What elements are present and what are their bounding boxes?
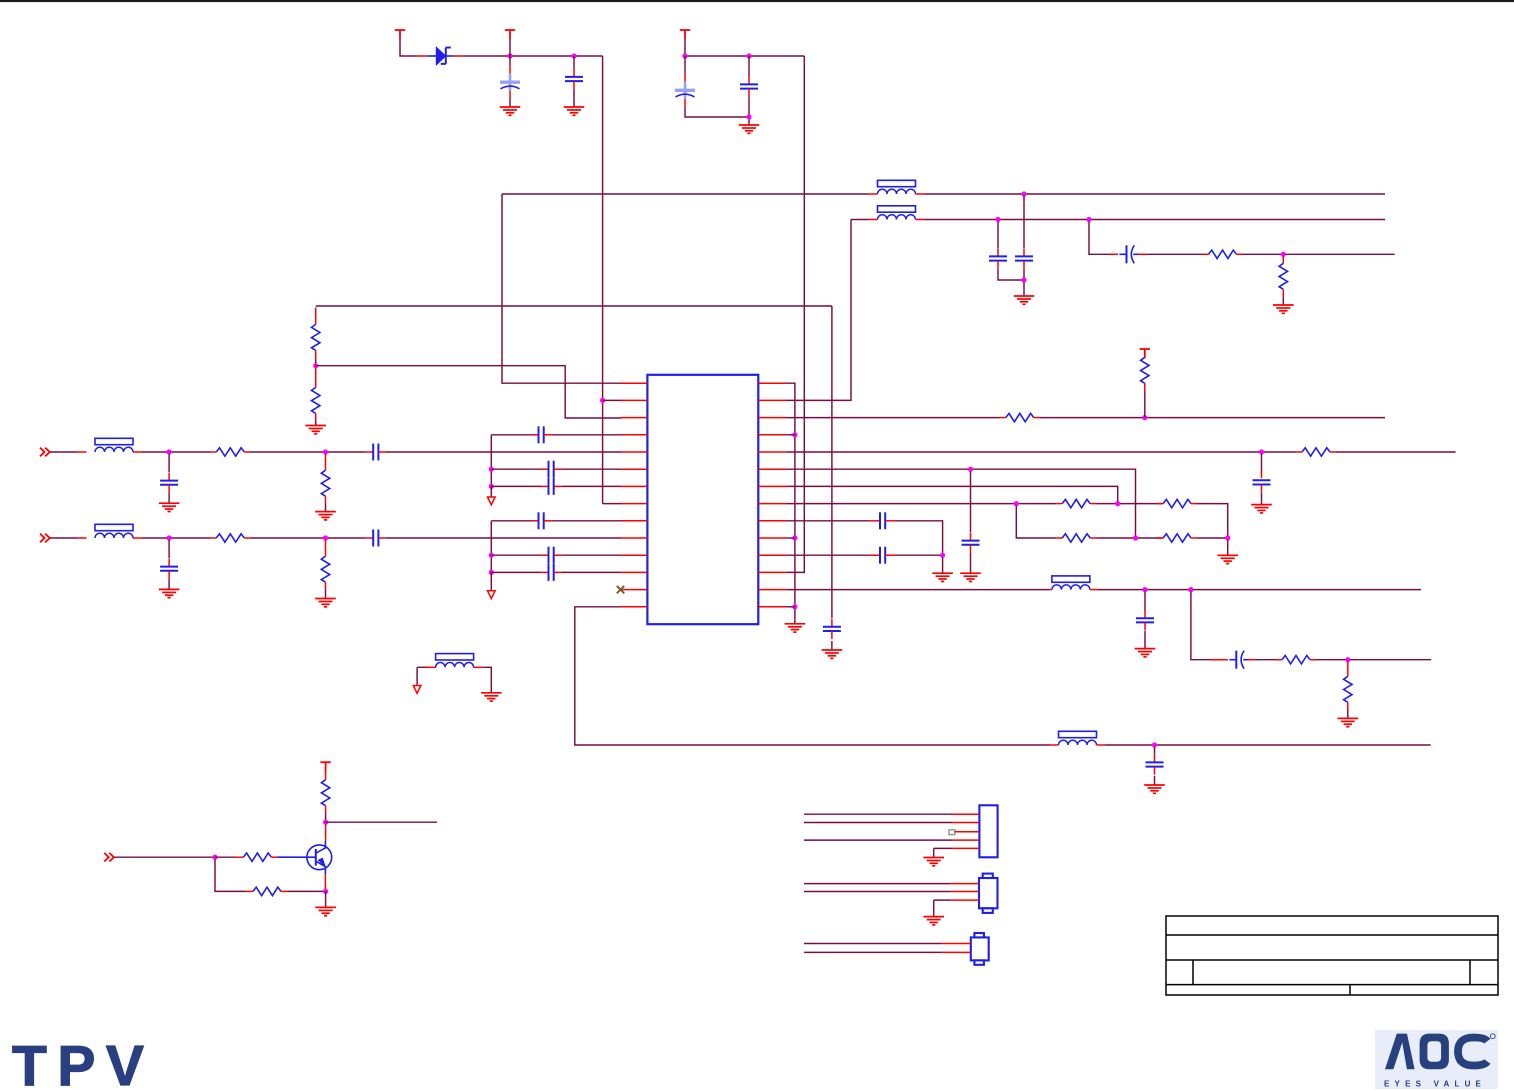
wire Ca3 to pin [561, 485, 621, 487]
resistor R6 bottom stub [1144, 383, 1146, 391]
capacitor C5 [989, 256, 1007, 260]
ground for C5 C6 [1014, 296, 1035, 304]
wire rail to pin L8 [603, 503, 621, 505]
junction resnet C [1133, 535, 1138, 540]
junction FB1 cap tap [1142, 587, 1147, 592]
wire W1 tap down [1023, 196, 1025, 248]
resistor R5a [216, 448, 244, 456]
wire rail b to cap2 [491, 554, 541, 556]
pin 24 stub (right) [758, 451, 786, 453]
wire R3 to node [315, 360, 317, 366]
pin 19 stub (right) [758, 537, 786, 539]
capacitor C5 top stub [997, 248, 999, 256]
wire port 6 to bead [50, 537, 77, 539]
pin 7 stub (left) [621, 485, 647, 487]
pin 16 stub (right) [758, 589, 786, 591]
capacitor C13 bottom stub [1154, 767, 1156, 775]
resistor R16 right stub [281, 890, 288, 892]
wire J1 pin at 822.5 [804, 822, 952, 824]
resistor R15 left stub [236, 856, 243, 858]
capacitor C6g top stub [168, 559, 170, 567]
junction rail pin 25 [792, 432, 797, 437]
junction R13 tap [1345, 657, 1350, 662]
resistor R8 right stub [1090, 503, 1096, 505]
capacitor Cb3 [549, 564, 554, 581]
ground for pins 20/18 [932, 573, 953, 581]
junction row 5 res tap [323, 449, 328, 454]
wire resnet A down [1016, 506, 1056, 538]
wire J3 pin at 943.5 [804, 943, 942, 945]
resistor R6b [321, 556, 329, 582]
J1 pin stub at 814.2 [952, 813, 979, 815]
capacitor C4 bottom stub [748, 89, 750, 97]
capacitor Ca1 right stub [544, 434, 551, 436]
junction emitter node [323, 889, 328, 894]
connector J2 body [979, 874, 998, 913]
resistor R4 [312, 387, 320, 413]
wire C6g to ground [168, 579, 170, 589]
wire J1 pin at 814.2 [804, 813, 952, 815]
wire rail b top to cap [491, 520, 531, 522]
wire J2 pin at 891.5 [804, 891, 951, 893]
wire pin23 tap down [970, 471, 972, 532]
ferrite bead FB3 [878, 180, 916, 194]
wire Ca2 to pin [561, 468, 621, 470]
resistor R15 right stub [271, 856, 277, 858]
resistor R5 left stub [1000, 417, 1006, 419]
junction node A1 [507, 53, 512, 58]
wire R13 to ground [1347, 710, 1349, 718]
wire pin 20 net right [895, 521, 942, 555]
wire resistor 6 to cap [251, 537, 366, 539]
bead FB5 right stub [133, 451, 142, 453]
wire pin 25 to rail [787, 434, 795, 436]
capacitor C5g bottom stub [168, 485, 170, 493]
capacitor Cb2 right stub [554, 554, 561, 556]
wire D1 to corner node A [463, 55, 603, 57]
connector J1 body [979, 805, 997, 857]
wire C10 to ground [970, 553, 972, 573]
pin 9 stub (left) [621, 520, 647, 522]
wire node A1 to C1 [509, 56, 511, 66]
pin 26 stub (right) [758, 417, 786, 419]
resistor R8 [1062, 499, 1090, 507]
capacitor C6 [1015, 256, 1033, 260]
junction resnet A [1014, 501, 1019, 506]
capacitor C13 [1146, 762, 1164, 766]
resistor R5 [1006, 413, 1034, 421]
power pin VCC4 [1140, 349, 1150, 358]
wire VCC3 stem [684, 39, 686, 56]
wire R12 net right [1316, 659, 1431, 661]
pin 6 stub (left) [621, 468, 647, 470]
junction collector node [323, 820, 328, 825]
resistor R5a left stub [210, 451, 216, 453]
wire C1 to ground [509, 99, 511, 107]
resistor R1 [1209, 250, 1237, 258]
resistor R1 left stub [1203, 253, 1209, 255]
wire C7 to R1 [1147, 253, 1203, 255]
power pin VCC5 [320, 762, 330, 771]
wire rail b to cap3 [491, 571, 541, 573]
resistor R6a left stub [210, 537, 216, 539]
capacitor Cb2 [549, 547, 554, 564]
resistor R5b bottom stub [325, 496, 327, 504]
wire to arrow a [490, 486, 492, 497]
J2 pin stub at 883.6 [951, 883, 979, 885]
ground for C8 [822, 650, 843, 658]
pin 22 stub (right) [758, 485, 786, 487]
capacitor C2 [565, 77, 583, 81]
wire collector output [326, 821, 437, 823]
resistor R2 bottom stub [1282, 289, 1284, 297]
ground for R6b [315, 599, 336, 607]
capacitor C6g bottom stub [168, 571, 170, 579]
ground for J2 [923, 917, 944, 925]
J1 pin 5 stub [952, 847, 979, 849]
resistor R15 [243, 853, 271, 861]
ferrite bead FB5 [95, 438, 133, 452]
pin 10 stub (left) [621, 537, 647, 539]
resistor R14 bottom stub [325, 806, 327, 813]
capacitor C15 right stub [885, 554, 895, 556]
wire Cb3 to pin [561, 571, 621, 573]
capacitor C6 top stub [1023, 248, 1025, 256]
resistor R13 bottom stub [1347, 702, 1349, 710]
junction pullup node [1142, 415, 1147, 420]
wire C3 bottom to node B3 [685, 107, 749, 117]
wire C6 to ground [1023, 269, 1025, 296]
J1 pin 3 stub [955, 831, 980, 833]
resistor R7 right stub [1330, 451, 1336, 453]
ground for Q1 [315, 907, 336, 915]
wire emitter to ground [325, 891, 327, 907]
wire R6 to junction [1144, 391, 1146, 418]
junction node B1 [682, 53, 687, 58]
resistor R12 [1282, 656, 1310, 664]
bead FB2 right stub [1097, 744, 1106, 746]
wire pin 20 net left [787, 520, 870, 522]
wire R1 to right edge [1243, 253, 1395, 255]
resistor R7 left stub [1296, 451, 1302, 453]
resistor R14 [321, 780, 329, 806]
wire R6b to ground [325, 590, 327, 599]
wire FB5 to ground [483, 667, 492, 693]
capacitor Cb1 left stub [531, 520, 538, 522]
ferrite bead FB1 [1052, 576, 1090, 590]
wire W3 drop to capacitor [831, 306, 833, 618]
capacitor C3 bottom stub [684, 99, 686, 107]
capacitor C9 [1253, 480, 1271, 484]
junction FB1 branch [1188, 587, 1193, 592]
junction W2 cap tap [995, 217, 1000, 222]
op-amp U1 (main IC body) [647, 375, 758, 624]
junction row 5 cap tap [167, 449, 172, 454]
capacitor C1 (electrolytic) [500, 74, 520, 91]
capacitor C6s (series) [373, 530, 378, 547]
capacitor C4 top stub [748, 76, 750, 84]
wire C13 to ground [1154, 776, 1156, 785]
capacitor Cb2 left stub [541, 554, 548, 556]
wire C5g to ground [168, 493, 170, 503]
capacitor Ca1 left stub [531, 434, 538, 436]
capacitor Cb1 [539, 512, 544, 529]
junction row 6 cap tap [167, 535, 172, 540]
capacitor Ca3 right stub [554, 485, 561, 487]
power down-arrow a [488, 497, 496, 505]
ground for resnet [1217, 555, 1238, 563]
capacitor Ca2 right stub [554, 468, 561, 470]
power pin VCC1 [395, 30, 405, 39]
wire W2 tap down [997, 222, 999, 249]
bead FB5 right stub [473, 666, 482, 668]
ground for C1 [500, 107, 521, 115]
transistor Q1 (NPN) [277, 841, 331, 874]
wire W2 branch down [1089, 222, 1110, 255]
capacitor C2 bottom stub [573, 81, 575, 89]
junction resnet D [1225, 535, 1230, 540]
capacitor C5s left stub [366, 451, 373, 453]
capacitor Ca1 [539, 426, 544, 443]
power down-arrow b [488, 591, 496, 599]
pin 2 stub (left) [621, 399, 647, 401]
capacitor C14 right stub [885, 520, 895, 522]
capacitor C6 bottom stub [1023, 261, 1025, 269]
svg-text:EYES VALUE: EYES VALUE [1384, 1080, 1486, 1089]
wire J2 pin 3 [934, 899, 951, 901]
capacitor Ca2 [549, 461, 554, 478]
pin 18 stub (right) [758, 554, 786, 556]
transistor Q1 collector stub [325, 824, 327, 841]
capacitor C1 bottom stub [509, 91, 511, 99]
junction rail a row1 [489, 467, 494, 472]
pin 25 stub (right) [758, 434, 786, 436]
power down-arrow FB5 [413, 686, 421, 694]
capacitor C5g top stub [168, 473, 170, 481]
wire FB1 tap down [1144, 592, 1146, 610]
junction pin23 cap tap [968, 467, 973, 472]
wire FB2 tap down [1154, 747, 1156, 754]
junction rail b row1 [489, 553, 494, 558]
resistor R11 right stub [1191, 537, 1197, 539]
resistor R6b bottom stub [325, 582, 327, 590]
wire rail to pin L2 [603, 399, 621, 401]
wire R5 net right [1040, 417, 1385, 419]
resistor R16 left stub [246, 890, 253, 892]
ground for R4 [305, 426, 326, 434]
junction W1 cap tap [1021, 191, 1026, 196]
pin 15 stub (right) [758, 606, 786, 608]
bead FB4 left stub [868, 219, 878, 221]
key square on J1 pin 3 [949, 830, 955, 835]
resistor R9 [1163, 499, 1191, 507]
wire pin 15 to rail [787, 606, 795, 608]
bead FB4 right stub [916, 219, 926, 221]
junction rail pin 19 [792, 535, 797, 540]
ferrite bead FB4 [878, 206, 916, 220]
no-connect X on pin 13 [617, 586, 624, 593]
ground for C2 [564, 107, 585, 115]
wire pin24 tap down [1261, 454, 1263, 470]
pin 23 stub (right) [758, 468, 786, 470]
ground for R13 [1338, 718, 1359, 726]
capacitor C15 [880, 547, 885, 564]
wire port 5 to bead [50, 451, 77, 453]
diode D1 cathode stub [454, 55, 463, 57]
capacitor C7 right stub [1138, 253, 1147, 255]
wire branch down [1191, 592, 1211, 660]
wire pin 22 net [787, 486, 1118, 503]
junction node A2 [571, 53, 576, 58]
ground for C6g [159, 589, 180, 597]
wire resnet to ground [1227, 540, 1229, 555]
resistor R9 right stub [1191, 503, 1197, 505]
resistor R6 [1141, 357, 1149, 383]
resistor R16 [253, 887, 281, 895]
wire C8 to ground [831, 641, 833, 650]
junction pins 20/18 [940, 553, 945, 558]
pin 4 stub (left) [621, 434, 647, 436]
wire C2 to ground [573, 89, 575, 107]
resistor R9 left stub [1157, 503, 1163, 505]
capacitor Ca3 left stub [541, 485, 548, 487]
capacitor C15 left stub [870, 554, 880, 556]
pin 1 stub (left) [621, 382, 647, 384]
capacitor C14 left stub [870, 520, 880, 522]
junction C5/C6 [1021, 277, 1026, 282]
resistor R8 left stub [1056, 503, 1062, 505]
junction R2 tap [1281, 252, 1286, 257]
capacitor C11 [1136, 618, 1154, 622]
wire R7 net right [1336, 451, 1456, 453]
resistor R1 right stub [1237, 253, 1243, 255]
junction node B2 [746, 53, 751, 58]
resistor R10 [1062, 534, 1090, 542]
pin 14 stub (left) [621, 606, 647, 608]
wire pin 16 net left [787, 589, 1050, 591]
wire C12 to R12 [1256, 659, 1276, 661]
wire resistor 5 to cap [251, 451, 366, 453]
bead FB6 left stub [77, 537, 87, 539]
wire R5b to ground [325, 504, 327, 512]
capacitor C9 bottom stub [1261, 485, 1263, 493]
capacitor C6s left stub [366, 537, 373, 539]
junction divider node [313, 363, 318, 368]
wire J1 to ground [933, 848, 935, 857]
junction on rail at pin L2 row [600, 398, 605, 403]
capacitor C5s (series) [373, 444, 378, 461]
wire C4 to ground [748, 97, 750, 125]
wire C11 to ground [1144, 631, 1146, 649]
wire rail a to cap2 [491, 468, 541, 470]
wire right ground rail [787, 383, 795, 616]
resistor R5b [321, 470, 329, 496]
wire to arrow FB5 [416, 667, 418, 685]
capacitor C5s right stub [379, 451, 386, 453]
wire node B2 to C4 [748, 56, 750, 76]
wire pin 23 net [787, 469, 1136, 538]
junction rail pin 15 [792, 604, 797, 609]
resistor R2 top stub [1282, 256, 1284, 263]
capacitor Ca2 left stub [541, 468, 548, 470]
pin 5 stub (left) [621, 451, 647, 453]
wire net W2 right segment [925, 219, 1385, 221]
junction FB2 cap tap [1152, 742, 1157, 747]
wire to arrow b [490, 572, 492, 590]
capacitor C2 top stub [573, 69, 575, 77]
resistor R2 [1279, 263, 1287, 289]
bead FB5 left stub [427, 666, 437, 668]
wire base node down to R16 [215, 859, 246, 891]
wire cap 6 to IC pin [386, 537, 621, 539]
J1 pin stub at 840.1 [952, 839, 979, 841]
wire node A down-rail to pin L8 [602, 56, 604, 504]
wire J3 pin at 952.4 [804, 951, 942, 953]
resistor R6a [216, 534, 244, 542]
resistor R10 left stub [1056, 537, 1062, 539]
wire C5 bottom to node [998, 269, 1024, 280]
wire from VCC1 to diode D1 [400, 39, 417, 56]
connector J3 body [971, 933, 989, 965]
ground for C9 [1251, 505, 1272, 513]
bead FB1 right stub [1090, 589, 1098, 591]
junction rail a row2 [489, 484, 494, 489]
capacitor C5 bottom stub [997, 261, 999, 269]
ground for C13 [1144, 785, 1165, 793]
wire pin 18 net left [787, 554, 870, 556]
pin 13 stub (left) [621, 589, 647, 591]
wire node B down-rail to pin R12 [787, 56, 805, 572]
wire J2 pin at 883.6 [804, 883, 951, 885]
wire R11 to node [1197, 537, 1228, 539]
junction base node [212, 855, 217, 860]
capacitor C5g [160, 481, 178, 485]
capacitor C3 (electrolytic) [675, 82, 695, 99]
wire R8 to R9 [1096, 503, 1163, 505]
wire net W1 right segment [925, 193, 1385, 195]
capacitor C10 top stub [970, 532, 972, 540]
capacitor Cb3 left stub [541, 571, 548, 573]
capacitor C12 right stub [1248, 659, 1256, 661]
capacitor C8 bottom stub [831, 631, 833, 639]
capacitor C7 (series electrolytic) [1120, 245, 1140, 263]
resistor R5 right stub [1034, 417, 1040, 419]
input port P3 [104, 853, 114, 862]
power pin VCC3 [680, 30, 690, 39]
wire R4 to ground [315, 420, 317, 426]
wire rail a vertical [490, 435, 492, 487]
wire J2 to ground [933, 900, 935, 917]
wire Cb2 to pin [561, 554, 621, 556]
capacitor C6s right stub [379, 537, 386, 539]
AOC logo [1375, 1030, 1498, 1089]
ground for R2 [1273, 305, 1294, 313]
ground for C5g [159, 503, 180, 511]
wire pin 19 to rail [787, 537, 795, 539]
wire bottom net right [1106, 744, 1431, 746]
ground for R5b [315, 512, 336, 520]
junction resnet B [1115, 501, 1120, 506]
ground for C10 [960, 573, 981, 581]
svg-text:TPV: TPV [12, 1034, 154, 1090]
wire pin 18 net right [895, 554, 942, 556]
wire node B horizontal [685, 55, 804, 57]
pin 20 stub (right) [758, 520, 786, 522]
wire J1 pin at 840.1 [804, 839, 952, 841]
resistor R6 top stub [1144, 349, 1146, 357]
junction row 6 res tap [323, 535, 328, 540]
capacitor C11 bottom stub [1144, 622, 1146, 630]
